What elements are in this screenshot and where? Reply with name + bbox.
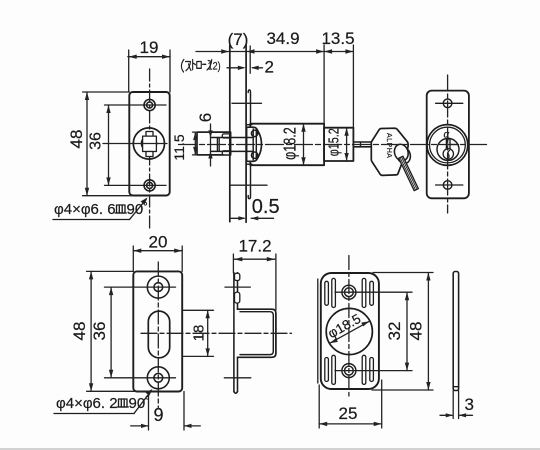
note phi4 x phi6.6 countersink 90 xyxy=(53,198,148,220)
dimension 17.2 xyxy=(233,254,276,310)
strike bottom screw crosshair xyxy=(105,377,176,379)
mounting surface line L2 xyxy=(245,45,247,222)
dimension phi18.2 inside cylinder xyxy=(301,124,305,166)
hub top step tick xyxy=(247,124,252,126)
strike v-centerline xyxy=(157,262,159,408)
rosette v-centerline xyxy=(348,256,350,397)
rosette outline xyxy=(321,273,379,389)
top dimension line (7)/34.9/13.5 xyxy=(196,45,353,128)
screw centerline tick bottom xyxy=(230,184,267,186)
rosette top screw xyxy=(342,285,356,299)
dimension 3 xyxy=(440,391,473,419)
key shank xyxy=(353,142,371,147)
svg-text:11.5: 11.5 xyxy=(171,134,187,160)
dimension phi15.2 inside neck xyxy=(344,128,348,161)
dimension 32 xyxy=(405,292,409,370)
dimension 36 left (F4) xyxy=(109,287,113,378)
screw centerline tick top xyxy=(232,102,262,104)
svg-text:3: 3 xyxy=(465,395,474,414)
strike oval slot xyxy=(148,311,169,358)
dimension 20 top xyxy=(133,246,182,271)
F1 vertical centerline xyxy=(149,69,151,228)
alpha tick xyxy=(447,137,449,140)
bolt shank top line xyxy=(211,137,254,139)
F1 bottom screw hole xyxy=(144,180,155,191)
F1 middle circle with bolt xyxy=(133,128,164,159)
hub bottom step tick xyxy=(247,163,252,165)
phi18.2 cylinder body xyxy=(250,124,324,166)
short ext line for dim 2 xyxy=(249,46,251,73)
strike box inner xyxy=(240,312,273,355)
svg-text:36: 36 xyxy=(88,132,105,150)
main horizontal centerline of assembly xyxy=(179,144,488,146)
svg-text:12): 12) xyxy=(208,61,221,73)
front top screw xyxy=(443,99,452,108)
dimension 11.5 xyxy=(193,132,212,155)
F1 middle circle h-centerline xyxy=(103,143,167,145)
keyway slot xyxy=(446,139,450,149)
svg-text:48: 48 xyxy=(70,322,89,341)
svg-text:6: 6 xyxy=(196,113,215,122)
rosette top ext line xyxy=(373,272,433,274)
latch bolt head (white fill) xyxy=(197,132,231,155)
rosette bottom screw crosshair xyxy=(335,370,412,372)
faceplate F1 outline (latch front view top-left) xyxy=(129,92,169,196)
key bow ALPHA head xyxy=(371,128,408,175)
key ring second loop xyxy=(395,145,413,165)
dimension 19 top xyxy=(128,50,170,92)
strike plate outline xyxy=(133,271,182,391)
bottom scan edge line xyxy=(0,448,540,450)
front bottom screw xyxy=(443,181,452,190)
svg-text:2: 2 xyxy=(265,58,274,77)
dimension 48 left (F4) xyxy=(87,271,152,391)
flange second tab xyxy=(235,292,240,303)
mounting plate edge L3 upper xyxy=(248,90,250,124)
svg-text:36: 36 xyxy=(90,322,109,341)
dimension 18 xyxy=(183,310,214,356)
stroke-12 katakana label xyxy=(181,60,211,73)
rosette slots top-left xyxy=(325,278,336,307)
cylinder outer circle xyxy=(427,125,468,166)
flange screw tick bottom xyxy=(224,377,251,379)
svg-text:9: 9 xyxy=(153,405,163,425)
note phi4 x phi6.2 countersink 90 xyxy=(54,389,153,414)
flange screw tick top xyxy=(225,286,250,288)
rosette side shadow line xyxy=(317,279,319,383)
hub spindle slot xyxy=(253,129,256,160)
svg-text:20: 20 xyxy=(149,233,168,252)
front bottom screw slot line xyxy=(436,184,463,186)
door edge line L1 xyxy=(229,45,231,222)
key blade hanging xyxy=(399,156,419,190)
dimension 6 xyxy=(208,124,212,166)
svg-text:ALPHA: ALPHA xyxy=(385,133,392,158)
keyway chord xyxy=(446,144,458,146)
svg-text:90˚: 90˚ xyxy=(129,395,151,412)
hub screw boss top xyxy=(251,130,257,136)
cylinder plug circle xyxy=(437,138,459,160)
svg-text:34.9: 34.9 xyxy=(266,29,299,48)
dimension 0.5 bottom xyxy=(231,216,274,220)
rosette slots bottom-left xyxy=(325,355,336,384)
F1 top screw hole xyxy=(144,99,155,110)
bolt guide tab top xyxy=(222,134,230,138)
keyway circle xyxy=(443,149,453,159)
bolt shank bottom line xyxy=(211,150,254,152)
dimension 2 arrow xyxy=(251,66,263,70)
rosette bottom screw xyxy=(342,364,356,378)
rosette slots bottom-right xyxy=(362,355,373,384)
strike box flange plate xyxy=(234,273,238,394)
front view v-centerline xyxy=(447,75,449,213)
dimension 48 right xyxy=(426,273,430,391)
svg-text:48: 48 xyxy=(407,322,426,341)
rosette bottom ext line xyxy=(372,389,433,391)
front plate xyxy=(427,91,469,199)
key ring main loop xyxy=(392,142,410,162)
cylinder ring circle xyxy=(430,127,466,163)
keyway wafer squiggle xyxy=(448,151,450,159)
flange top tab xyxy=(235,273,240,280)
phi15.2 cylinder neck xyxy=(324,128,353,161)
strike top screw crosshair xyxy=(105,286,176,288)
svg-text:48: 48 xyxy=(67,130,86,149)
svg-text:13.5: 13.5 xyxy=(321,29,354,48)
svg-text:32: 32 xyxy=(385,322,404,341)
svg-text:19: 19 xyxy=(140,38,159,57)
dimension 36 left (F1) xyxy=(105,105,167,185)
hub on mounting plate xyxy=(247,127,262,161)
svg-text:25: 25 xyxy=(339,404,358,423)
dimension 25 bottom xyxy=(319,380,382,428)
dimension 48 left (F1) xyxy=(83,92,134,196)
strip outline xyxy=(453,272,458,391)
rosette top screw crosshair xyxy=(335,291,412,293)
phi18.5 diagonal arrow xyxy=(330,321,370,343)
bolt inner face double line xyxy=(217,138,219,152)
strike top screw hole xyxy=(147,276,169,298)
rosette big circle xyxy=(326,308,372,354)
svg-text:φ18.2: φ18.2 xyxy=(280,127,300,160)
strike box outer xyxy=(238,309,276,357)
mounting plate edge L3 lower xyxy=(248,165,250,199)
strip bottom tick xyxy=(453,386,458,388)
strike bottom screw hole xyxy=(147,367,169,389)
svg-text:0.5: 0.5 xyxy=(252,196,280,218)
rosette slots top-right xyxy=(362,278,373,307)
bolt guide tab bottom xyxy=(222,151,230,155)
svg-text:φ4×φ6. 6: φ4×φ6. 6 xyxy=(54,201,116,218)
dimension 9 bottom xyxy=(131,392,201,431)
svg-text:φ15.2: φ15.2 xyxy=(325,128,342,156)
front top screw slot line xyxy=(436,102,463,104)
stroke arrow to mounting face xyxy=(227,66,246,70)
long horizontal centerline through oval and box xyxy=(141,332,292,334)
svg-text:17.2: 17.2 xyxy=(238,237,271,256)
hub screw boss bottom xyxy=(251,152,257,158)
svg-text:φ4×φ6. 2: φ4×φ6. 2 xyxy=(56,395,118,412)
